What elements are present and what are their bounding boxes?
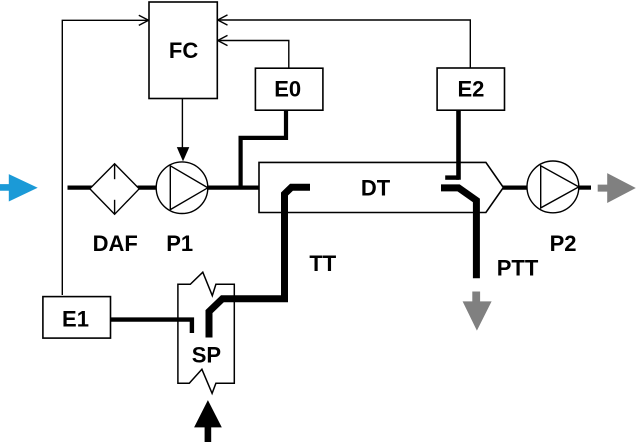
arrowhead FC to P1 (solid) [177, 147, 190, 161]
wire P1 to DT [208, 186, 259, 190]
arrow SP inlet up (black) [194, 400, 222, 442]
svg-text:E0: E0 [274, 76, 301, 101]
wire main flow inlet stub [68, 186, 94, 190]
svg-text:DT: DT [361, 176, 391, 201]
arrowhead into FC left [139, 15, 149, 25]
arrowhead into FC right lower [218, 35, 228, 45]
svg-text:P1: P1 [166, 231, 193, 256]
arrow inlet (blue) [0, 174, 38, 201]
wire E2 foot stub [445, 175, 459, 179]
pump P2 triangle [541, 166, 579, 208]
pump P2 circle [527, 161, 579, 213]
arrowhead into FC right top [218, 15, 228, 25]
tube PTT out of DT (thick) [441, 188, 476, 278]
pump P1 triangle [170, 166, 208, 210]
wire FC to P1 (thin, down) [181, 99, 183, 149]
controller FC box [149, 2, 217, 99]
wire feedback E1 to FC (thin, up-left) [62, 20, 147, 295]
wire feedback E2 to FC (thin, top) [220, 20, 471, 68]
wire E1 signal into SP [111, 320, 192, 333]
svg-text:PTT: PTT [497, 256, 539, 281]
wire DT to P2 [503, 186, 528, 190]
svg-text:E2: E2 [457, 76, 484, 101]
svg-text:FC: FC [169, 38, 198, 63]
filter DAF inner line top [114, 164, 116, 179]
sensor E0 box [255, 68, 323, 110]
wire E0 signal to main line [241, 111, 286, 190]
wire feedback E0 to FC (thin) [220, 41, 289, 68]
arrow outlet right (gray) [598, 173, 636, 203]
separator SP (broken-edge box) [178, 272, 234, 393]
wire E2 signal into DT [456, 110, 461, 180]
sensor E2 box [437, 68, 504, 110]
tube TT from SP into DT (thick) [209, 187, 310, 337]
svg-text:E1: E1 [62, 306, 89, 331]
wire DAF to P1 [138, 186, 158, 190]
svg-text:TT: TT [309, 251, 336, 276]
vessel DT [259, 162, 503, 212]
filter DAF inner line bottom [114, 200, 116, 214]
svg-text:SP: SP [192, 343, 221, 368]
svg-text:P2: P2 [550, 231, 577, 256]
filter DAF (diamond) [90, 164, 139, 215]
sensor E1 box [43, 297, 111, 339]
wire P2 outlet stub [579, 186, 591, 190]
arrow PTT down (gray) [463, 292, 492, 331]
svg-text:DAF: DAF [93, 231, 138, 256]
pump P1 circle [156, 162, 208, 214]
